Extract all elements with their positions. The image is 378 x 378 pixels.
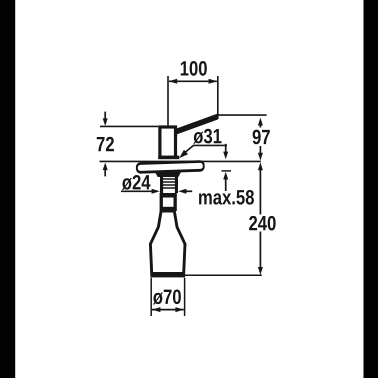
o31 leader arrow (179, 145, 227, 158)
escutcheon plate (136, 160, 205, 174)
pump body (158, 127, 179, 159)
max.58: lower arrow pointing up (223, 172, 228, 191)
collar coupling (160, 193, 177, 211)
dimension o70: right extension line (184, 278, 186, 316)
dimension 240: lower arrow pointing down (258, 232, 263, 275)
dimension 100: value label (181, 61, 207, 76)
extension line from spout tip to dim 97 (218, 114, 266, 116)
dimension o24 label (122, 175, 151, 190)
dimension 72: lower arrow (pointing up) (103, 163, 108, 177)
right black pillar bar (364, 0, 378, 378)
dimension o70 label (153, 289, 181, 304)
counter reference line (100, 160, 261, 162)
o31 label (193, 129, 221, 144)
left black pillar bar (0, 0, 15, 378)
dimension o24: right arrow pointing left at shaft (178, 189, 192, 194)
max.58: upper segment with down arrow at counter line (223, 144, 228, 160)
dimension 97: upper arrow pointing up (258, 118, 263, 128)
threaded shaft (160, 177, 178, 194)
dimension o24: left arrow pointing right at shaft (121, 189, 160, 194)
dimension 97: lower arrow pointing down (258, 146, 263, 161)
dimension 100: dimension line with arrows (169, 79, 218, 84)
bottle (150, 211, 185, 277)
dimension 72: upper arrow (pointing down) (103, 112, 108, 126)
dimension 240: upper arrow pointing up (258, 162, 263, 214)
dimension 100: right extension line (217, 76, 219, 119)
flange under plate (155, 172, 181, 177)
bottle bottom extension line to dim 240 (185, 274, 262, 276)
dimension 72: value label (97, 137, 114, 151)
dimension 240: value label (249, 216, 276, 231)
dimension o70: dimension line with arrows (152, 307, 184, 312)
lever spout (177, 114, 218, 135)
dimension 97: value label (253, 130, 270, 145)
dimension 100: left extension line (167, 76, 169, 125)
dimension 72: extension line to body top (100, 125, 158, 127)
dimension o70: left extension line (150, 278, 152, 316)
max.58 label (199, 190, 254, 205)
max.58: extension tick at plate bottom level (222, 170, 232, 172)
